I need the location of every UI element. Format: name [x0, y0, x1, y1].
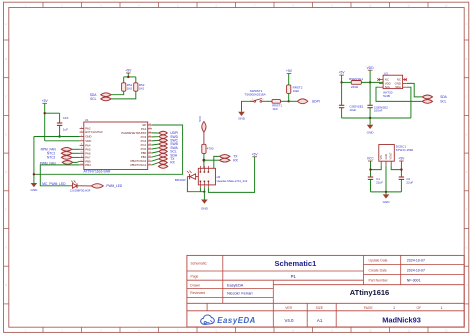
port SDA (pullup): [90, 93, 111, 97]
resistor RSENSE1 220R: [349, 77, 363, 89]
svg-text:D: D: [466, 132, 468, 136]
svg-text:SDA: SDA: [395, 85, 401, 89]
svg-text:H: H: [466, 283, 468, 287]
svg-text:22uF: 22uF: [406, 180, 413, 184]
svg-text:1K0: 1K0: [139, 87, 145, 91]
svg-text:U3: U3: [384, 72, 388, 76]
junction VDD node: [369, 81, 371, 83]
svg-text:+5V: +5V: [125, 69, 132, 73]
svg-text:OF: OF: [417, 306, 422, 310]
resistor RRST2 10k0: [287, 85, 303, 94]
junction MCU +5V: [44, 112, 46, 114]
port 5V0 (vertical): [198, 116, 206, 132]
port RX (header): [219, 158, 238, 162]
svg-text:NF-0001: NF-0001: [407, 279, 421, 283]
svg-text:BM10W: BM10W: [175, 178, 186, 182]
svg-text:GND: GND: [384, 154, 388, 160]
wire GND row to left rail: [34, 137, 80, 184]
power flag +5V (I2C pullups): [125, 69, 132, 77]
wire RSENSE1 to U3 VDD: [361, 81, 383, 83]
wire R470 to junction: [203, 153, 205, 168]
power flag +5V (regulator): [398, 157, 405, 177]
svg-text:1: 1: [441, 306, 443, 310]
ports UDPI..RX (MCU right): [152, 131, 179, 168]
ground (header): [201, 192, 209, 211]
power flag VDD: [367, 66, 375, 83]
svg-text:G: G: [465, 245, 467, 249]
resistor R51 1K0: [122, 83, 133, 91]
svg-text:2024-10-07: 2024-10-07: [407, 269, 425, 273]
svg-text:KTW-D-1590: KTW-D-1590: [396, 148, 414, 152]
svg-text:E: E: [5, 170, 7, 174]
wire +5V down through CSENSE1: [341, 82, 343, 118]
wire EP to ground loop: [34, 125, 183, 174]
svg-text:MadNick93: MadNick93: [382, 315, 421, 324]
svg-text:Drawn: Drawn: [190, 283, 200, 287]
svg-text:+5V: +5V: [398, 157, 405, 161]
wire VOUT to +5V column: [391, 165, 401, 169]
wire C1 to ground rail: [370, 179, 372, 192]
port PWM_FAN: [40, 161, 80, 166]
wire U3 SCL pin to SCL port: [376, 87, 422, 101]
svg-text:UDPI: UDPI: [312, 100, 320, 104]
svg-text:SCL: SCL: [440, 100, 446, 104]
power flag VCC: [367, 157, 375, 177]
svg-text:1: 1: [393, 306, 395, 310]
junction regulator +5V: [400, 168, 402, 170]
junction +5V pullups: [127, 76, 129, 78]
svg-text:10uF: 10uF: [349, 108, 356, 112]
svg-text:ATtiny1616: ATtiny1616: [350, 288, 389, 297]
power flag +5V (reset pullup): [286, 69, 293, 85]
wire port to R470: [203, 132, 205, 144]
wire CF4 top: [45, 113, 60, 123]
LED BM10W: [187, 171, 199, 180]
net label MC_PWM_LED: [42, 182, 66, 186]
svg-text:B: B: [5, 57, 7, 61]
svg-text:RX: RX: [170, 161, 175, 165]
wire switch pin2 to RRST1: [266, 100, 273, 102]
capacitor CF4 1uF: [57, 116, 69, 132]
wire switch pin1 to ground: [242, 101, 254, 112]
svg-text:A1: A1: [317, 318, 323, 323]
svg-text:VER: VER: [285, 306, 292, 310]
junction UPDI node: [288, 100, 290, 102]
capacitor C1 22uF: [368, 177, 383, 185]
svg-text:+5V: +5V: [286, 69, 293, 73]
port UDPI (reset): [297, 99, 319, 104]
svg-text:ATTINY1616-SNR: ATTINY1616-SNR: [84, 169, 111, 173]
ground (reset switch): [238, 112, 246, 121]
svg-text:A: A: [466, 22, 468, 26]
svg-text:VIN: VIN: [379, 155, 383, 159]
junction regulator ground: [385, 191, 387, 193]
junction sensor ground: [369, 117, 371, 119]
svg-text:TS6000A2518A: TS6000A2518A: [244, 92, 265, 96]
wire C2 to ground rail: [400, 179, 402, 192]
svg-text:PAGE: PAGE: [364, 306, 374, 310]
wire +5V to RSENSE1: [342, 81, 352, 83]
svg-text:G: G: [5, 245, 7, 249]
LED D1 CUS08F30,H3F: [70, 180, 80, 188]
svg-text:1K0: 1K0: [272, 107, 278, 111]
svg-text:NTC2: NTC2: [47, 156, 56, 160]
resistor R52 1K0: [134, 83, 145, 91]
power flag +5V (header): [252, 152, 259, 158]
ground (sensor): [367, 118, 375, 134]
wire LED to ground rail: [187, 177, 204, 192]
svg-text:5V0: 5V0: [198, 116, 202, 122]
port RPM_FAN: [41, 147, 80, 151]
wire CF4 bottom to GND row: [59, 125, 61, 136]
regulator DCDC1 KTW-D-1590: [379, 145, 395, 166]
svg-text:VCC: VCC: [367, 157, 375, 161]
svg-text:+5V: +5V: [339, 71, 346, 75]
wire U3 SDA pin to ground rail: [407, 87, 411, 118]
port TX (header): [219, 155, 238, 159]
svg-text:+5V: +5V: [252, 152, 259, 156]
svg-text:GND: GND: [367, 130, 375, 134]
svg-text:Part Number: Part Number: [369, 279, 389, 283]
designator H3: [217, 175, 248, 183]
capacitor CSENSE1 10uF: [339, 105, 364, 112]
svg-text:Schematic:: Schematic:: [191, 262, 208, 266]
wire junction to UPDI port: [289, 100, 298, 102]
wire sensor ground rail: [342, 117, 411, 119]
capacitor CSENSE2 100nF: [367, 105, 388, 112]
svg-text:A: A: [5, 22, 7, 26]
svg-text:+5V: +5V: [42, 99, 49, 103]
svg-text:RX: RX: [233, 158, 238, 162]
svg-text:CUS08F30,H3F: CUS08F30,H3F: [70, 189, 91, 193]
svg-text:EasyEDA: EasyEDA: [217, 316, 256, 325]
junction VCC: [369, 168, 371, 170]
wire VDD row: [45, 140, 80, 142]
port SCL (pullup): [90, 97, 111, 101]
ground (regulator): [383, 192, 391, 204]
wire PB4 to LED loop: [40, 165, 79, 186]
wire junction to RX port: [204, 159, 219, 161]
svg-text:H: H: [5, 283, 7, 287]
svg-text:GND: GND: [30, 188, 38, 192]
svg-text:P1: P1: [291, 274, 297, 279]
svg-text:GND: GND: [383, 200, 391, 204]
svg-text:4700: 4700: [207, 147, 214, 151]
port NTC1: [47, 151, 80, 155]
svg-text:C: C: [5, 95, 7, 99]
header H3 Header-Male-2.54_2x3: [198, 166, 215, 187]
svg-text:Update Date: Update Date: [369, 258, 388, 262]
port SCL (sensor): [422, 100, 446, 104]
wire RRST1 to junction: [281, 100, 289, 102]
ground (MCU left): [30, 183, 38, 192]
svg-text:VOUT: VOUT: [389, 152, 393, 160]
wire SCL to R52: [111, 91, 136, 99]
svg-text:Schematic1: Schematic1: [275, 259, 317, 268]
designator DCDC1 KTW-D-1590: [396, 144, 414, 152]
svg-text:100nF: 100nF: [374, 109, 383, 113]
svg-text:5x3B: 5x3B: [383, 94, 390, 98]
title block: [187, 255, 464, 327]
op IC U3 AHT20: [377, 72, 407, 90]
wire TX port to header: [214, 156, 219, 168]
svg-text:CF4: CF4: [63, 116, 69, 120]
switch SWRST1 TS6000A2518A: [244, 89, 265, 102]
svg-text:E: E: [466, 170, 468, 174]
svg-text:1K0: 1K0: [127, 87, 133, 91]
svg-text:22uF: 22uF: [376, 180, 383, 184]
junction header node: [203, 159, 206, 162]
svg-text:MC_PWM_LED: MC_PWM_LED: [42, 182, 66, 186]
capacitor C2 22uF: [399, 177, 414, 185]
value label BM10W: [175, 178, 186, 182]
port PWM_LED: [91, 184, 123, 189]
wire VDD down through CSENSE2: [369, 82, 371, 118]
value label AHT20 5x3B: [383, 91, 393, 98]
svg-text:220Ω: 220Ω: [351, 85, 359, 89]
microcontroller U1 ATTINY1616-SNR: [80, 118, 152, 169]
power flag +5V (sensor): [339, 71, 346, 83]
svg-text:SCL: SCL: [385, 85, 391, 89]
power flag +5V (MCU): [42, 99, 49, 141]
svg-text:PWM_LED: PWM_LED: [106, 184, 122, 188]
wire VIN to VCC column: [371, 165, 382, 169]
svg-text:B: B: [466, 57, 468, 61]
junction ground rail left: [33, 173, 35, 175]
svg-text:Create Date: Create Date: [369, 268, 387, 272]
svg-text:GND: GND: [238, 117, 246, 121]
svg-text:V4.0: V4.0: [284, 318, 294, 323]
wire RRST2 to junction: [288, 93, 290, 101]
svg-text:Page: Page: [191, 274, 199, 278]
svg-text:RSENSE1: RSENSE1: [349, 77, 363, 81]
svg-text:SDA: SDA: [440, 95, 447, 99]
title block texts: [190, 258, 442, 324]
svg-text:PB4: PB4: [85, 163, 91, 167]
svg-text:2024-10-07: 2024-10-07: [407, 259, 425, 263]
wire header pins to ground rail: [200, 187, 204, 191]
EasyEDA logo: [201, 315, 256, 325]
svg-text:GND: GND: [201, 206, 209, 210]
svg-text:U1: U1: [85, 118, 89, 122]
svg-text:1uF: 1uF: [63, 128, 68, 132]
svg-text:EXTCLK/PA3: EXTCLK/PA3: [85, 130, 103, 134]
wire U3 GND pin to SDA port: [407, 83, 422, 97]
value label CUS08F30,H3F: [70, 189, 91, 193]
svg-text:EasyEDA: EasyEDA: [227, 284, 244, 288]
port NTC2: [47, 156, 80, 160]
wire SDA to R51: [111, 91, 124, 95]
svg-text:10k0: 10k0: [293, 89, 300, 93]
svg-text:Reviewed: Reviewed: [190, 291, 205, 295]
svg-text:VDD: VDD: [367, 66, 375, 70]
svg-text:D: D: [5, 132, 7, 136]
wire regulator ground rail: [371, 165, 402, 192]
resistor 470R: [202, 144, 214, 153]
junction CF4 ground: [58, 135, 60, 137]
svg-text:SCL: SCL: [90, 97, 97, 101]
svg-text:PB3/TOSC1: PB3/TOSC1: [130, 163, 146, 167]
svg-text:Niccolo' Ferrari: Niccolo' Ferrari: [227, 292, 253, 296]
wire header +5V: [208, 158, 254, 192]
junction header ground: [203, 191, 205, 193]
port SDA (sensor): [422, 95, 447, 99]
svg-text:Header-Male-2.54_2x3: Header-Male-2.54_2x3: [217, 179, 248, 183]
wire R51/R52 top rail: [124, 77, 136, 83]
resistor RRST1 1K0: [272, 99, 282, 110]
svg-text:VDD: VDD: [85, 139, 91, 143]
junction +5V sensor: [340, 81, 342, 83]
svg-text:SIZE: SIZE: [316, 306, 324, 310]
wire LED to PWM_LED port: [80, 185, 91, 187]
svg-text:C: C: [466, 95, 468, 99]
value label ATTINY1616-SNR: [84, 169, 111, 173]
